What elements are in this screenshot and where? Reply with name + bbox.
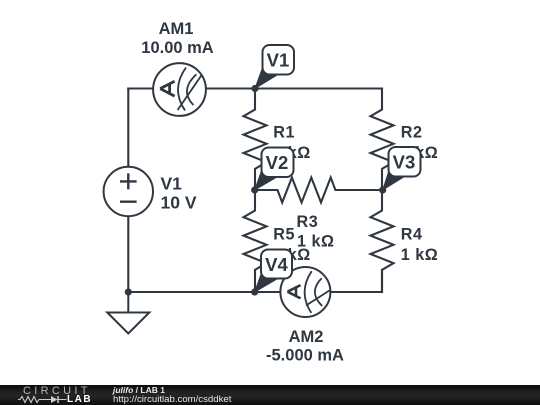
resistor R5 value label bbox=[273, 226, 310, 265]
svg-text:10 V: 10 V bbox=[161, 193, 197, 213]
resistor R2 bbox=[371, 89, 394, 191]
svg-text:AM2: AM2 bbox=[289, 328, 324, 346]
resistor R4 value label bbox=[401, 226, 438, 265]
svg-text:R3: R3 bbox=[297, 213, 319, 231]
node bottom (V4 probe) bbox=[251, 288, 258, 295]
voltage source V1 label bbox=[161, 174, 197, 213]
svg-text:V1: V1 bbox=[267, 50, 290, 71]
ammeter AM2 label bbox=[266, 328, 344, 365]
svg-text:R2: R2 bbox=[401, 124, 423, 142]
resistor R5 bbox=[244, 190, 267, 292]
node bottom-left (ground junction) bbox=[125, 288, 132, 295]
node left-mid (V2 probe) bbox=[251, 186, 258, 193]
wire source V1 to bottom node bbox=[127, 216, 129, 292]
wire bottom-right corner up to R4 bbox=[381, 270, 383, 292]
resistor R3 bbox=[255, 178, 383, 203]
wire top-left from corner to AM1 bbox=[128, 87, 154, 89]
svg-text:V1: V1 bbox=[161, 174, 183, 194]
svg-text:R4: R4 bbox=[401, 226, 423, 244]
CircuitLab logo bbox=[23, 387, 91, 395]
voltmeter tag V1 bbox=[255, 45, 294, 89]
voltmeter tag V4 bbox=[255, 250, 292, 293]
ammeter AM2 bbox=[280, 267, 330, 317]
svg-text:R5: R5 bbox=[273, 226, 295, 244]
svg-text:-5.000 mA: -5.000 mA bbox=[266, 347, 344, 365]
voltage source V1 bbox=[104, 167, 153, 216]
wire AM2 to bottom-right corner bbox=[330, 291, 382, 293]
voltmeter tag V3 bbox=[383, 147, 421, 190]
svg-text:V3: V3 bbox=[393, 152, 416, 173]
voltmeter tag V2 bbox=[255, 148, 294, 191]
svg-text:10.00 mA: 10.00 mA bbox=[141, 39, 214, 57]
wire node V1 to top-right corner bbox=[255, 87, 382, 89]
resistor R2 value label bbox=[401, 124, 438, 163]
svg-text:V2: V2 bbox=[266, 152, 289, 173]
resistor R3 value label bbox=[297, 213, 335, 251]
svg-text:1 kΩ: 1 kΩ bbox=[401, 246, 438, 264]
svg-text:V4: V4 bbox=[265, 254, 288, 275]
resistor R1 value label bbox=[273, 124, 310, 163]
resistor R4 bbox=[371, 190, 394, 292]
svg-text:R1: R1 bbox=[273, 124, 295, 142]
wire AM1 to node V1 bbox=[205, 87, 255, 89]
footer url text bbox=[113, 395, 231, 404]
footer title text bbox=[113, 386, 165, 395]
node right-mid (V3 probe) bbox=[379, 186, 386, 193]
svg-text:AM1: AM1 bbox=[159, 20, 194, 38]
ammeter AM1 label bbox=[141, 20, 214, 57]
ammeter AM1 bbox=[153, 63, 206, 116]
wire left branch down to source V1 bbox=[127, 89, 129, 168]
wire bottom left to AM2 bbox=[128, 291, 281, 293]
resistor R1 bbox=[244, 89, 267, 191]
node at top (V1 probe) bbox=[251, 85, 258, 92]
ground bbox=[107, 292, 149, 334]
